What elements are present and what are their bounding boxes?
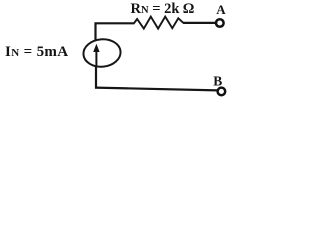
wire: top horizontal segment from corner to resistor [95,22,135,24]
svg-text:A: A [216,2,226,17]
svg-text:IN = 5mA: IN = 5mA [5,44,68,60]
svg-text:RN = 2k Ω: RN = 2k Ω [131,1,195,17]
resistor RN [134,17,183,29]
wire: bottom horizontal segment to terminal B [95,88,218,91]
wire: current source bottom vertical segment [95,66,97,89]
current source IN (ellipse body) [82,38,121,69]
current source arrow shaft [95,50,97,67]
svg-text:B: B [213,73,222,88]
wire: top-left vertical segment from corner down to current source [94,22,96,40]
wire: resistor to terminal A [183,22,216,24]
terminal A [216,19,224,27]
terminal B [218,88,226,96]
current source arrowhead [93,44,99,52]
